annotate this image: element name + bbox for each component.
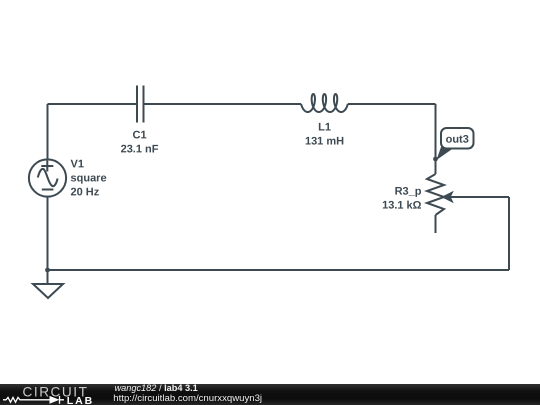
svg-text:V1: V1 — [71, 158, 84, 170]
svg-text:R3_p: R3_p — [395, 186, 422, 198]
svg-text:20 Hz: 20 Hz — [71, 186, 100, 198]
svg-text:wangc182 / lab4 3.1: wangc182 / lab4 3.1 — [115, 384, 198, 393]
svg-text:L1: L1 — [318, 122, 331, 134]
svg-text:out3: out3 — [446, 134, 469, 146]
svg-text:131 mH: 131 mH — [305, 136, 344, 148]
svg-text:23.1 nF: 23.1 nF — [121, 143, 159, 155]
svg-text:13.1 kΩ: 13.1 kΩ — [382, 200, 422, 212]
svg-text:http://circuitlab.com/cnurxxqw: http://circuitlab.com/cnurxxqwuyn3j — [113, 393, 262, 404]
svg-text:LAB: LAB — [67, 395, 94, 405]
svg-text:C1: C1 — [132, 129, 146, 141]
svg-text:square: square — [71, 172, 107, 184]
